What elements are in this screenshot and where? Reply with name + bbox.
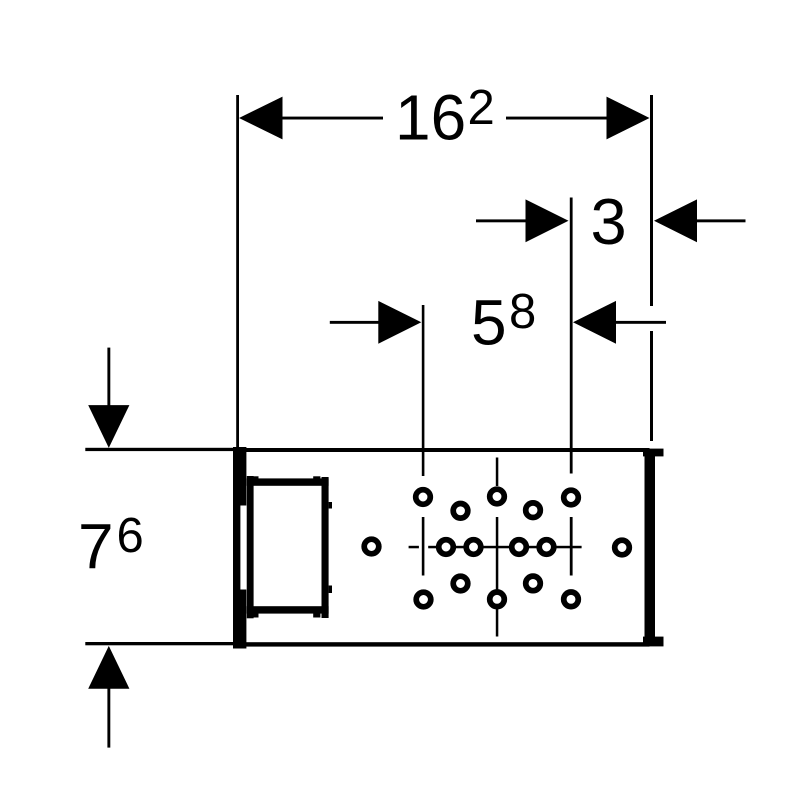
dimension 162: right arrowhead [607,97,650,140]
connector: bottom bar [247,606,329,613]
hole upper-diag-right [526,503,541,518]
connector: right tab lower [329,586,332,594]
svg-text:3: 3 [591,185,627,258]
connector: right tab upper [329,502,332,509]
connector: left bar [247,476,254,618]
hole upper-diag-left [453,504,468,519]
hole top-center [490,489,505,504]
dimension 58: left extension line [422,305,425,476]
dimension 58: right arrowhead [573,301,616,344]
dimension 58: left arrow tail [330,321,381,324]
dimension 3: right arrow tail [696,219,746,222]
dimension 76: top extension line [85,448,237,451]
centerline vertical x=497 lower [496,517,499,637]
dimension 162: left arrow tail [281,117,383,120]
dimension 162: right extension line upper segment [650,95,653,306]
connector: bottom-left nub [251,613,258,618]
hole top-right [564,490,579,505]
hole bottom-center [490,592,505,607]
dimension 76: down arrowhead [88,405,129,448]
svg-text:5: 5 [471,287,507,359]
hole top-left [416,490,431,505]
box: bottom edge [235,642,650,646]
box: top edge [235,448,650,452]
hole bottom-right [564,592,579,607]
dimension 3 / 58: shared extension line at x=571 [570,198,573,474]
svg-text:16: 16 [395,82,466,154]
box: left wall [233,447,240,649]
hole left outer [364,539,379,554]
dimension 162: right extension line lower segment [650,331,653,441]
svg-text:8: 8 [509,285,536,339]
dimension 58: right arrow tail [615,321,666,324]
connector: top bar [247,478,329,485]
dimension 76: bottom extension line [85,642,237,645]
connector: top-left nub [251,476,258,479]
connector: right bar [322,477,329,618]
centerline horizontal y=547 left dash [409,546,419,549]
hole mid-right-inner [512,540,527,555]
left clip: white slot [240,506,246,590]
svg-text:2: 2 [468,81,495,135]
svg-text:7: 7 [78,511,114,583]
centerline horizontal y=547 main [428,546,581,549]
svg-text:6: 6 [117,509,144,563]
dimension 3: right arrowhead [654,199,697,242]
dimension 76: down arrow tail [107,348,110,410]
left wall inner lining (merged thick bar) [233,447,246,649]
dimension 58: left extension line lower segment [422,517,425,576]
hole bottom-left [416,592,431,607]
box: right wall bottom cap [643,637,664,647]
hole lower-diag-left [453,576,468,591]
holes [364,489,629,607]
hole mid-right-outer [539,540,554,555]
dimension 3: left arrowhead [526,199,569,242]
dimension 76: up arrowhead [88,646,129,689]
dimension 3: left arrow tail [476,219,528,222]
hole right outer [615,540,630,555]
connector: bottom-right nub [313,613,320,618]
shared extension line x=571 lower segment [570,517,573,576]
hole lower-diag-right [526,576,541,591]
dimension 162: left arrowhead [239,97,283,140]
hole mid-left-outer [439,540,454,555]
dimension 76: up arrow tail [107,688,110,748]
box: right wall top cap [643,449,664,457]
dimension 162: left extension line [236,95,239,450]
hole mid-left-inner [466,540,481,555]
box: right wall bar [645,449,656,646]
dimension 58: left arrowhead [378,301,421,344]
dimension 162: right arrow tail [506,117,607,120]
connector: top-right nub [313,476,320,479]
centerline vertical x=497 upper [496,458,499,487]
